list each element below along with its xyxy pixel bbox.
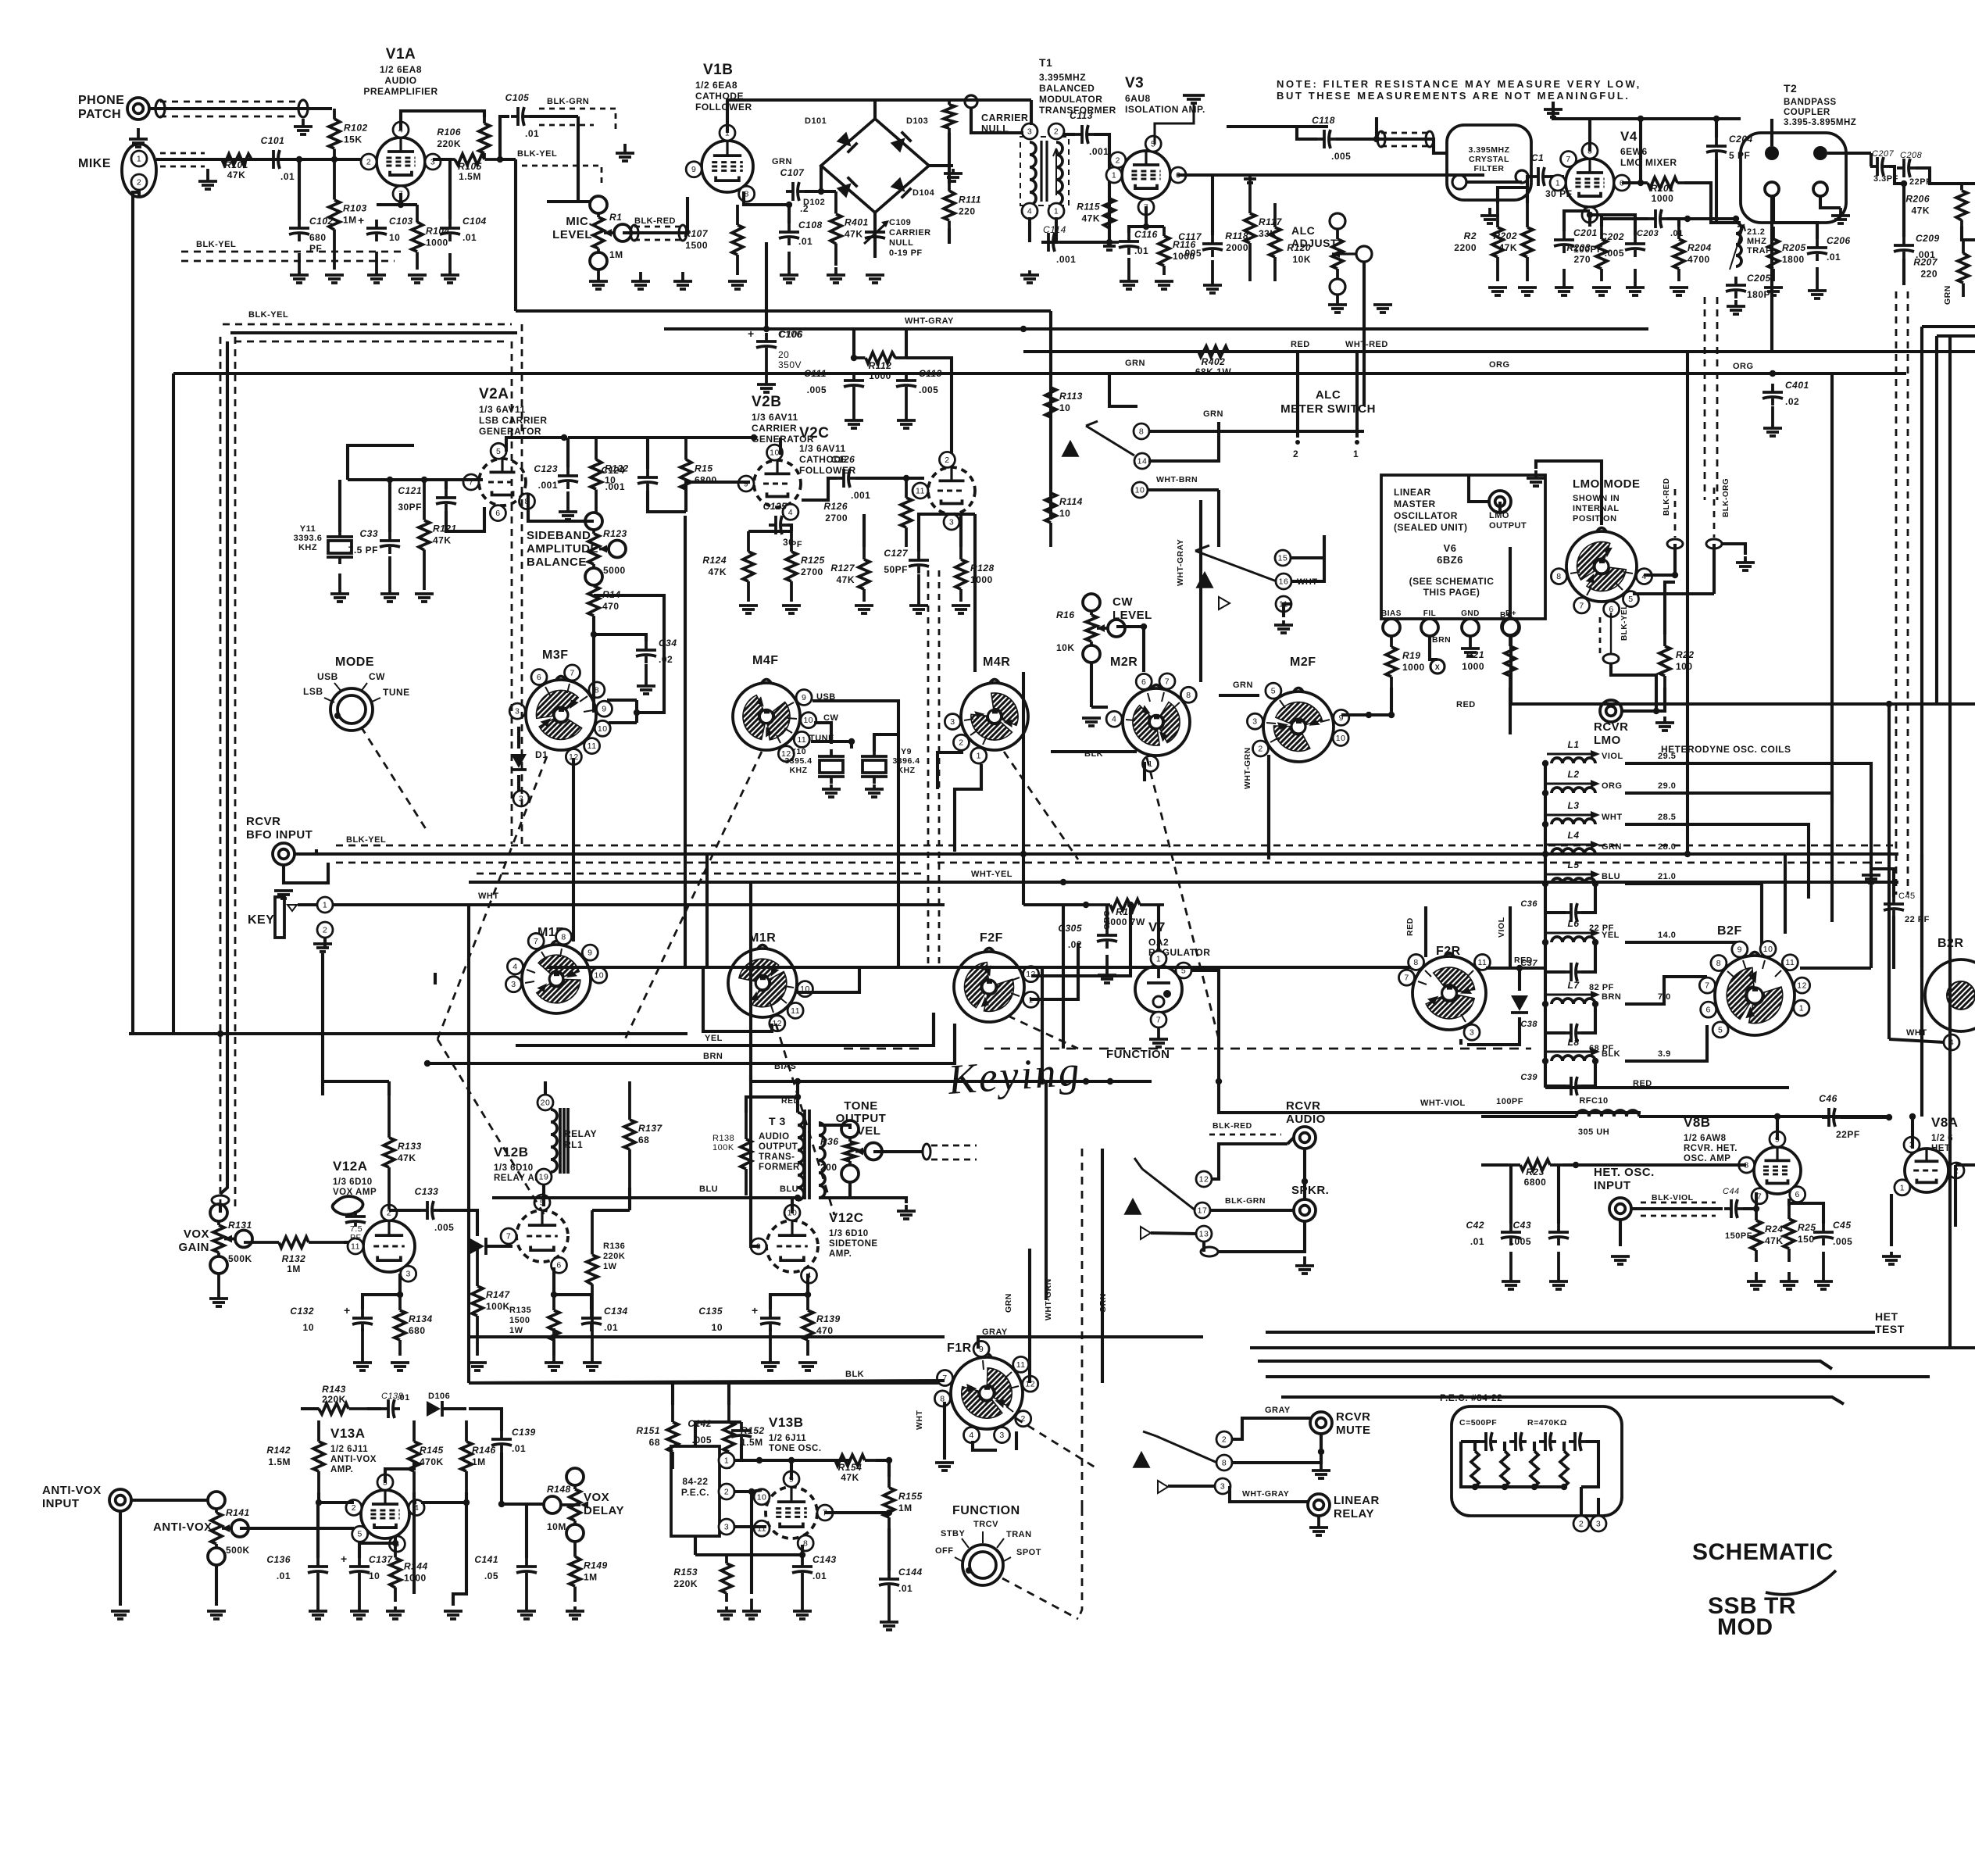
svg-text:10M: 10M — [547, 1521, 566, 1532]
label V2A — [479, 386, 509, 402]
wire C204 down — [1716, 159, 1741, 223]
svg-text:0-19 PF: 0-19 PF — [889, 248, 923, 258]
wire c203 right — [1667, 217, 1687, 220]
wire v2b plate — [779, 438, 782, 455]
svg-text:T 3: T 3 — [769, 1115, 786, 1127]
svg-text:BLK-YEL: BLK-YEL — [517, 149, 557, 159]
wire ovals gnd — [1722, 544, 1745, 555]
wire C204 up — [1715, 119, 1718, 138]
svg-text:R24: R24 — [1765, 1224, 1784, 1235]
PEC box big — [1452, 1406, 1622, 1516]
node t3 keying — [795, 1078, 801, 1085]
node pec2 — [748, 1488, 755, 1495]
resistor R142 1.5M — [266, 1420, 324, 1492]
capacitor C124 .001 — [637, 469, 658, 491]
wire r133 top — [387, 1081, 391, 1095]
label CW m4f — [823, 713, 838, 723]
wire bridge bottom — [873, 213, 877, 258]
svg-text:9: 9 — [602, 705, 606, 714]
capacitor C104 .01 — [440, 220, 460, 241]
label V1A — [386, 46, 416, 63]
svg-text:OSC. AMP: OSC. AMP — [1684, 1154, 1730, 1163]
pot R123 5000 — [585, 513, 627, 585]
svg-text:LMO: LMO — [1489, 511, 1509, 520]
label WHT key — [478, 892, 499, 901]
crystal Y9 — [861, 749, 887, 784]
wire r112 right up — [905, 329, 908, 358]
wire p8 rail — [695, 1553, 802, 1556]
svg-text:C123: C123 — [534, 463, 558, 474]
crystal filter box — [1447, 125, 1531, 200]
svg-text:220: 220 — [959, 206, 976, 217]
capacitor C101 .01 — [266, 150, 285, 169]
svg-text:.01: .01 — [898, 1583, 912, 1594]
wire whtbrn — [1217, 490, 1220, 547]
svg-text:C136: C136 — [266, 1554, 291, 1565]
svg-text:R154: R154 — [838, 1462, 862, 1473]
svg-text:C127: C127 — [884, 548, 909, 559]
dashed m1r diag2 — [776, 1024, 834, 1215]
svg-text:LMO MIXER: LMO MIXER — [1620, 157, 1677, 168]
wire pec top — [695, 1422, 741, 1446]
svg-text:.005: .005 — [807, 384, 827, 395]
wire gray bus — [469, 1335, 945, 1338]
ground C305 — [1098, 955, 1116, 983]
svg-text:C109: C109 — [889, 218, 911, 227]
node pec 0 — [1472, 1484, 1478, 1490]
wire whtred drop — [1355, 352, 1359, 438]
svg-text:1: 1 — [1156, 955, 1161, 964]
wire center vert3 — [953, 1024, 956, 1063]
wire f2f vert up — [1022, 672, 1025, 905]
svg-text:1M: 1M — [584, 1572, 598, 1583]
wire C117 up — [1211, 175, 1214, 235]
svg-text:+: + — [341, 1553, 348, 1565]
label V12B type — [494, 1163, 551, 1183]
pin19 relay — [536, 1169, 552, 1185]
svg-text:V2C: V2C — [799, 425, 829, 441]
svg-text:V4: V4 — [1620, 129, 1637, 144]
ground R124 — [739, 606, 758, 613]
pin20 relay — [537, 1095, 553, 1110]
wire V3 pin7 down — [1145, 206, 1148, 227]
label ALC METER SWITCH — [1280, 388, 1376, 416]
small tri open3 — [1158, 1481, 1168, 1493]
svg-text:V12B: V12B — [494, 1145, 529, 1160]
wire whtgray drop — [1199, 500, 1202, 682]
svg-text:C117: C117 — [1178, 231, 1202, 242]
svg-text:2200: 2200 — [1454, 242, 1477, 253]
label BLU 2 — [780, 1185, 798, 1194]
ground C109 — [866, 275, 884, 283]
wire antivox gnd — [119, 1511, 122, 1606]
svg-text:R125: R125 — [801, 555, 825, 566]
svg-text:2000: 2000 — [1226, 242, 1248, 253]
wire t3 sec gnd — [850, 1198, 906, 1203]
shield crystal a — [1381, 132, 1428, 134]
svg-text:3: 3 — [515, 707, 520, 716]
shield bfo b — [336, 862, 922, 864]
wire lmo p5 — [1633, 592, 1714, 595]
capacitor C34 .02 — [636, 641, 656, 663]
svg-text:VOX: VOX — [184, 1227, 209, 1241]
shield c127 pair a — [927, 570, 930, 969]
resistor R153 220K — [673, 1555, 732, 1602]
svg-text:150: 150 — [1798, 1234, 1815, 1245]
capacitor C207 3.3PF — [1870, 157, 1889, 176]
tube V13A — [346, 1474, 424, 1552]
label ANTI-VOX INPUT — [42, 1484, 102, 1510]
label RED v — [1405, 917, 1415, 936]
svg-text:1: 1 — [1799, 1004, 1804, 1013]
svg-text:305 UH: 305 UH — [1578, 1127, 1609, 1137]
svg-text:C45: C45 — [1833, 1220, 1852, 1231]
node rail L8 — [1542, 1058, 1548, 1064]
dashed right pair b — [1907, 291, 1909, 895]
wire C118 right — [1336, 138, 1377, 141]
wire hetosc gnd — [1619, 1220, 1622, 1246]
svg-text:47K: 47K — [1498, 242, 1517, 253]
jack HET OSC INPUT — [1609, 1198, 1631, 1220]
wire v12a k — [398, 1274, 402, 1295]
capacitor C1 30PF — [1531, 167, 1550, 186]
wire bias bus — [751, 1080, 1086, 1083]
wire v13a p4 — [414, 1501, 416, 1504]
node rail L6 — [1542, 939, 1548, 945]
wire c45 gnd link — [1871, 869, 1894, 897]
node pec 1 — [1502, 1484, 1508, 1490]
capacitor C134 .01 — [581, 1310, 602, 1331]
label GRN 2 — [1203, 409, 1223, 419]
resistor R401 47K — [830, 191, 869, 266]
ground rcvr lmo — [1655, 716, 1674, 731]
ground R115 n/a — [1100, 242, 1119, 250]
pin4 b2r — [1944, 1034, 1959, 1050]
node r18 l — [1083, 902, 1089, 908]
wire f2f p1 — [1030, 943, 1078, 999]
node R102 bottom — [331, 156, 337, 163]
node v2c grid — [903, 475, 909, 481]
capacitor C126 .001 — [837, 469, 855, 488]
svg-text:2: 2 — [1579, 1520, 1584, 1529]
jack RCVR LMO — [1600, 700, 1622, 722]
svg-text:C101: C101 — [261, 135, 285, 146]
node pec 2 — [1531, 1484, 1537, 1490]
wire grn drop — [1049, 311, 1052, 500]
svg-text:BLU: BLU — [1602, 872, 1620, 881]
label RCVR MUTE — [1336, 1410, 1371, 1437]
svg-text:1: 1 — [1112, 171, 1116, 180]
wire C107 to bridge — [805, 166, 821, 191]
resistor R125 2700 — [786, 531, 825, 602]
wire m4f net down — [684, 516, 687, 967]
wire org run — [1625, 793, 1832, 922]
resistor R143 220K — [301, 1384, 367, 1414]
ground C201 — [1555, 269, 1573, 295]
capacitor C137 10 — [349, 1558, 370, 1580]
label V4 type — [1620, 146, 1677, 168]
wire top right h2 — [1937, 334, 1975, 338]
label V6 — [1437, 542, 1463, 566]
svg-text:.001: .001 — [538, 480, 558, 491]
dashed blk-org — [1713, 488, 1716, 538]
small tri open — [1219, 597, 1230, 609]
svg-text:L3: L3 — [1567, 800, 1579, 811]
label D104 — [912, 188, 935, 198]
wire arm3 — [1142, 1169, 1195, 1210]
label WHT-GRN vert — [1243, 747, 1252, 789]
svg-text:3.9: 3.9 — [1658, 1049, 1671, 1059]
wire r23 left — [1481, 1163, 1508, 1167]
switch F1R — [934, 1341, 1037, 1442]
wire c207-c208 — [1889, 166, 1904, 184]
ground x413 — [313, 944, 332, 952]
svg-text:7: 7 — [1156, 1016, 1161, 1025]
wire pec pin3 up — [1597, 1498, 1600, 1517]
svg-text:.01: .01 — [280, 171, 295, 182]
svg-text:V7: V7 — [1148, 920, 1166, 934]
svg-text:YEL: YEL — [705, 1034, 723, 1043]
svg-text:C141: C141 — [474, 1554, 498, 1565]
dashed m2r diag — [1147, 758, 1219, 1039]
svg-text:F2F: F2F — [980, 931, 1003, 945]
svg-text:WHT-GRN: WHT-GRN — [1243, 747, 1252, 789]
svg-text:MOD: MOD — [1717, 1614, 1773, 1640]
svg-text:BLK-YEL: BLK-YEL — [1620, 604, 1629, 641]
svg-text:2: 2 — [1222, 1435, 1227, 1445]
capacitor C123 .001 — [558, 467, 578, 489]
resistor R105 1.5M — [440, 154, 500, 182]
transformer T1 — [1020, 123, 1069, 219]
resistor R138 100K — [741, 1113, 752, 1195]
label BLK-RED — [634, 216, 676, 226]
mode ticks — [324, 683, 380, 702]
svg-text:GAIN: GAIN — [179, 1241, 210, 1254]
svg-text:V6: V6 — [1444, 542, 1457, 554]
svg-text:R112: R112 — [869, 360, 892, 371]
resistor R15 6800 — [680, 438, 717, 512]
wire arm4b — [1143, 1431, 1156, 1436]
label MODE — [335, 656, 374, 669]
wire c34 link — [594, 634, 646, 641]
resistor R152 1.5M — [723, 1405, 765, 1469]
wire r2 r202 top — [1498, 188, 1527, 203]
ground R117 none — [1241, 175, 1259, 183]
svg-text:14.0: 14.0 — [1658, 931, 1676, 940]
svg-text:VIOL: VIOL — [1497, 917, 1506, 938]
label V13A — [330, 1426, 366, 1441]
wire v3k to R116 — [1146, 225, 1164, 228]
svg-text:2: 2 — [1116, 155, 1120, 165]
label VOX DELAY — [584, 1491, 624, 1517]
dashed function h2 — [844, 1048, 922, 1050]
svg-text:C1: C1 — [1531, 152, 1544, 163]
svg-text:8: 8 — [1556, 572, 1561, 581]
switch B2F — [1699, 941, 1809, 1037]
svg-text:68: 68 — [638, 1135, 649, 1145]
wire c208 down — [1902, 184, 1905, 237]
label V12C — [829, 1210, 864, 1225]
svg-text:470K: 470K — [420, 1456, 444, 1467]
wire right vert b — [1935, 336, 1938, 704]
node cw lvl — [1141, 624, 1147, 630]
svg-text:2: 2 — [945, 456, 949, 465]
resistor R14 470 — [588, 584, 621, 617]
label V12A — [333, 1159, 368, 1174]
switch M2R — [1106, 674, 1196, 772]
svg-text:R106: R106 — [437, 127, 461, 138]
wire key pin2 — [323, 937, 327, 949]
wire r154 right — [876, 1460, 889, 1477]
svg-text:C126: C126 — [831, 454, 855, 465]
label 22pf — [1905, 915, 1930, 924]
wire V3 left bus — [1108, 176, 1111, 242]
svg-text:V13B: V13B — [769, 1415, 804, 1430]
LMO box — [1381, 475, 1545, 619]
svg-text:47K: 47K — [708, 566, 727, 577]
wire C106 bus drop — [765, 311, 768, 329]
resistor R144 1000 — [390, 1543, 428, 1602]
wire v8a p1 down — [1890, 1194, 1893, 1246]
capacitor C113 .001 — [1075, 125, 1094, 144]
svg-text:12: 12 — [1797, 981, 1807, 991]
svg-text:22PF: 22PF — [1836, 1129, 1860, 1140]
wire red lmo — [1511, 702, 1975, 706]
node b2r vert top — [1886, 701, 1892, 707]
svg-text:GRN: GRN — [1125, 359, 1145, 368]
label RCVR BFO INPUT — [246, 815, 312, 842]
ground far right1 — [1373, 305, 1392, 313]
ground R120 — [1328, 295, 1347, 313]
svg-text:22 PF: 22 PF — [1905, 915, 1930, 924]
shield phone patch lower — [160, 116, 299, 118]
svg-text:100K: 100K — [486, 1301, 510, 1312]
node c46 r — [1886, 1114, 1892, 1120]
label TONE OUTPUT LEVEL — [836, 1099, 887, 1138]
wire r151 up — [671, 1383, 674, 1405]
svg-text:SIDETONE: SIDETONE — [829, 1239, 878, 1249]
wire C39 left — [1545, 1085, 1566, 1088]
node org c401 — [1770, 370, 1776, 377]
wire pec r1 top — [1473, 1442, 1477, 1451]
node bridge in — [818, 188, 824, 195]
label C106 — [778, 329, 802, 340]
svg-text:BLK-YEL: BLK-YEL — [248, 310, 288, 320]
tube V1B — [686, 125, 755, 202]
wire d1 up — [517, 727, 520, 749]
wire V3 top rail — [1227, 125, 1328, 128]
contact 16 — [1276, 574, 1291, 589]
node v2a plate — [561, 434, 567, 441]
node t3 top — [795, 1094, 801, 1100]
dashed f2f diag — [1008, 1016, 1078, 1049]
label RED lmo — [1456, 700, 1476, 709]
label trap — [1747, 227, 1772, 255]
svg-text:1/3 6D10: 1/3 6D10 — [829, 1229, 869, 1238]
node l5 cap — [1592, 881, 1598, 887]
svg-text:6: 6 — [1141, 677, 1146, 687]
node V3 grid — [1106, 173, 1112, 179]
svg-text:NOTE: FILTER RESISTANCE MAY ME: NOTE: FILTER RESISTANCE MAY MEASURE VERY… — [1277, 78, 1641, 90]
node v13b p8 — [799, 1552, 805, 1558]
svg-text:C125: C125 — [763, 501, 787, 512]
label BRN — [1432, 635, 1451, 645]
label V8B — [1684, 1115, 1711, 1130]
tube V12C — [751, 1205, 818, 1283]
svg-text:TONE: TONE — [844, 1099, 877, 1113]
svg-text:MODULATOR: MODULATOR — [1039, 94, 1102, 105]
svg-text:1M: 1M — [287, 1263, 301, 1274]
label Y10 — [784, 747, 812, 775]
shield BLK-GRN a — [539, 109, 616, 133]
svg-text:4: 4 — [1027, 207, 1032, 216]
wire whtgray to relay — [1230, 1486, 1308, 1502]
svg-text:47K: 47K — [841, 1472, 859, 1483]
svg-text:.001: .001 — [851, 490, 870, 501]
label SPKR — [1291, 1184, 1329, 1197]
label WHT-GRAY vert — [1176, 539, 1185, 586]
svg-text:6: 6 — [1795, 1190, 1800, 1199]
svg-text:150PF: 150PF — [1725, 1231, 1752, 1241]
svg-text:ORG: ORG — [1489, 360, 1510, 370]
svg-text:4: 4 — [788, 508, 793, 517]
wire T2 pin4 down — [1770, 196, 1773, 352]
key jack — [275, 897, 284, 938]
wire C102 drop — [298, 159, 301, 220]
ground C136 — [309, 1580, 327, 1619]
svg-text:6: 6 — [495, 509, 500, 518]
wire mid vert x1334 — [1041, 967, 1044, 1081]
svg-text:T2: T2 — [1784, 82, 1797, 95]
wire m2f p9 — [1341, 713, 1369, 716]
ground C103 — [367, 252, 386, 283]
label T1 desc — [1039, 72, 1116, 116]
wire m2r p4 — [1091, 706, 1108, 709]
wire mic level net — [578, 196, 598, 202]
svg-text:R101: R101 — [224, 159, 248, 170]
node p7 r155 — [886, 1510, 892, 1516]
svg-text:3: 3 — [1220, 1482, 1225, 1492]
svg-text:1: 1 — [1054, 207, 1059, 216]
dashed mid pair a — [1704, 297, 1706, 500]
wire top right h1 — [1922, 325, 1975, 328]
label BLK-RED 2 — [1212, 1121, 1252, 1131]
label r135 val — [509, 1306, 531, 1335]
svg-text:.001: .001 — [1056, 254, 1076, 265]
svg-text:WHT: WHT — [915, 1410, 924, 1430]
wire to V1B grid — [547, 116, 578, 202]
wire y9 up — [874, 734, 898, 752]
wire pec r3 top — [1533, 1442, 1536, 1451]
svg-text:LMO: LMO — [1594, 734, 1621, 747]
ground C104 — [441, 253, 459, 283]
node r23 node — [1573, 1162, 1579, 1168]
label GRAY 2 — [1265, 1406, 1291, 1415]
svg-text:8: 8 — [1716, 959, 1721, 968]
label SIDEBAND — [527, 529, 598, 569]
wire bias vert — [749, 1074, 752, 1081]
ground Y11 — [330, 574, 349, 602]
shield bfo b2 — [937, 862, 1889, 864]
svg-text:TRANS-: TRANS- — [759, 1152, 795, 1162]
wire wht-yel bus — [469, 881, 1898, 884]
tube V3 — [1106, 136, 1186, 215]
label C500 — [1459, 1418, 1497, 1428]
label V2A type — [479, 404, 548, 437]
svg-text:C206: C206 — [1827, 235, 1851, 246]
capacitor C125 30PF — [769, 516, 787, 534]
wire c45b up — [1789, 1203, 1823, 1224]
